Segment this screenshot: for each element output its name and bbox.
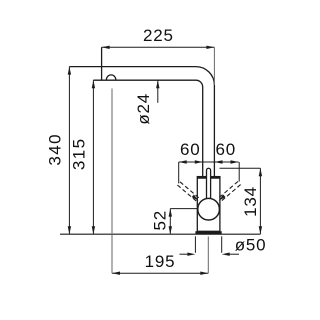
dimension d24 arrow (157, 81, 159, 103)
svg-text:ø24: ø24 (134, 93, 153, 125)
svg-text:225: 225 (143, 26, 174, 45)
svg-text:315: 315 (70, 138, 89, 171)
225 right extension (gray) (213, 47, 215, 85)
svg-text:60: 60 (216, 140, 237, 159)
body top thick edge (197, 176, 220, 179)
svg-text:134: 134 (241, 186, 260, 217)
aerator centerline (gray) (111, 89, 113, 274)
svg-text:52: 52 (151, 210, 170, 231)
dimension 52 (170, 208, 197, 210)
svg-text:195: 195 (145, 252, 176, 271)
sphere (198, 198, 220, 220)
lever dashed position right (218, 181, 241, 202)
flange (195, 231, 221, 234)
deck line (60, 233, 260, 235)
body centerline (gray) (207, 237, 209, 274)
lever dashed position left (177, 182, 200, 202)
lever stick (207, 168, 211, 201)
spout end cap (101, 47, 103, 80)
dimension 315 (92, 80, 94, 234)
aerator dome (106, 75, 115, 80)
spout inner outline (bottom + inner curve + neck left) (93, 80, 202, 176)
dimension 60/60 (179, 161, 239, 163)
body housing (197, 177, 220, 232)
dimension 225 (102, 46, 215, 48)
svg-text:340: 340 (46, 133, 65, 166)
dimension 340 (68, 67, 70, 235)
spout outer outline (top + right curve + neck right) (69, 67, 214, 177)
svg-text:ø50: ø50 (235, 236, 267, 255)
dimension 195 (112, 272, 208, 274)
svg-text:60: 60 (180, 140, 201, 159)
dashed lever arrowheads (192, 195, 199, 201)
dimension 134 (220, 167, 261, 169)
dimension d50 (194, 236, 196, 253)
